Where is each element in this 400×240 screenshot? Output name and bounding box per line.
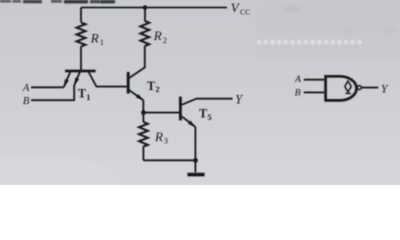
svg-text:R: R (154, 129, 163, 144)
svg-text:A: A (22, 82, 30, 94)
svg-text:T: T (199, 106, 207, 120)
svg-text:3: 3 (164, 137, 168, 146)
svg-text:T: T (147, 79, 155, 93)
svg-text:B: B (23, 95, 30, 107)
svg-text:CC: CC (240, 7, 250, 16)
svg-text:R: R (153, 28, 162, 43)
svg-text:2: 2 (155, 84, 159, 94)
svg-text:R: R (90, 30, 99, 45)
svg-text:A: A (294, 74, 302, 85)
svg-text:B: B (295, 88, 301, 99)
svg-text:1: 1 (86, 92, 90, 102)
svg-text:T: T (78, 86, 86, 100)
svg-text:1: 1 (100, 38, 104, 47)
svg-text:5: 5 (207, 112, 211, 122)
svg-text:2: 2 (163, 36, 167, 45)
